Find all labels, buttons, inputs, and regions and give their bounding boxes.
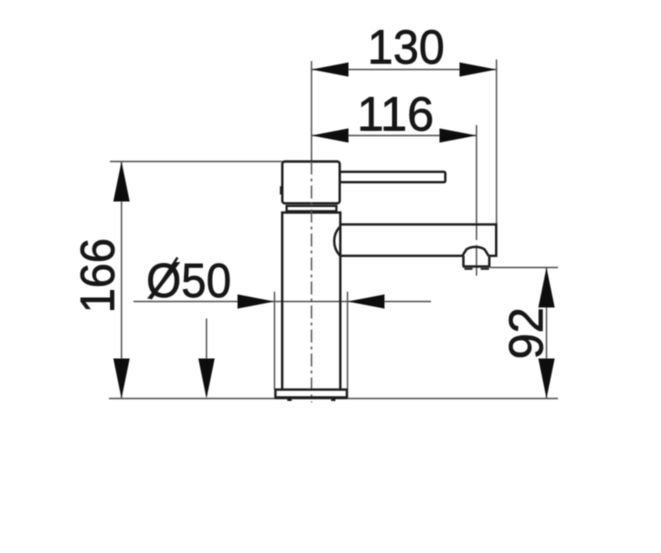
arrow 130 right: [460, 62, 497, 76]
spout to body junction arc: [334, 227, 340, 256]
extension line head top: [110, 161, 282, 163]
baseline / mounting plane: [109, 398, 558, 400]
dim line 116: [312, 135, 477, 137]
base plate: [275, 390, 347, 398]
extension line d50 right: [347, 292, 349, 390]
arrow 92 top: [538, 268, 554, 308]
svg-text:116: 116: [357, 88, 434, 142]
side button on head: [280, 186, 283, 194]
body centerline (dash-dot): [311, 162, 313, 403]
arrow 166 top: [113, 162, 129, 202]
lever handle: [340, 172, 446, 182]
svg-text:130: 130: [368, 20, 445, 74]
dim text 92 (rotated): [500, 307, 554, 359]
arrow 116 left: [312, 128, 349, 142]
arrow d50 left (points right, tip at left body edge): [238, 294, 275, 308]
aerator dome: [462, 247, 488, 256]
dim text 166 (rotated): [71, 238, 125, 313]
leader arrow down: [198, 359, 214, 399]
aerator body: [463, 256, 489, 267]
dim line 130: [312, 69, 497, 71]
arrow 166 bottom: [113, 359, 129, 399]
extension line faucet centerline upper: [311, 61, 313, 162]
svg-text:92: 92: [500, 307, 554, 359]
arrow 130 left: [312, 62, 349, 76]
spout outline: [340, 224, 496, 255]
aerator screen marks: [464, 268, 472, 270]
arrow d50 right (points left, tip at right body edge): [348, 294, 385, 308]
arrow 92 bottom: [538, 359, 554, 399]
extension line d50 left: [274, 292, 276, 390]
svg-text:166: 166: [71, 238, 125, 313]
slash overlay on diameter symbol: [151, 258, 178, 300]
serif feet of the two 1 digits in 116: [364, 127, 378, 131]
faucet handle head block: [282, 162, 339, 204]
extension line spout end: [496, 60, 498, 225]
aerator bottom edge: [463, 265, 491, 268]
base feet: [287, 399, 291, 401]
serif foot of digit 1 in 166 (rotated): [111, 293, 115, 307]
svg-text:Ø50: Ø50: [146, 254, 231, 308]
dim line 166: [121, 162, 123, 399]
collar ring: [287, 206, 337, 211]
body column: [281, 213, 342, 390]
extension line aerator bottom: [490, 267, 558, 269]
dim line 92: [546, 268, 548, 399]
arrow 116 right: [440, 128, 477, 142]
serif foot of digit 1 in 130: [374, 60, 388, 64]
base plate bottom thick edge: [275, 396, 347, 399]
extension line aerator centerline: [476, 125, 478, 276]
leader line to baseline: [206, 319, 208, 397]
dim line diameter 50: [134, 301, 432, 303]
